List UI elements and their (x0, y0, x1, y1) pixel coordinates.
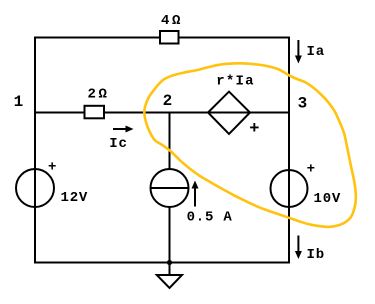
current arrow Ib (295, 236, 302, 260)
svg-text:Ib: Ib (307, 247, 325, 263)
resistor R2 2Ω box (85, 106, 105, 119)
ground (157, 263, 182, 289)
resistor R1 4Ω box (160, 31, 179, 44)
voltage source V2 10V circle (271, 170, 308, 207)
wire: outer loop (top, left, right, bottom) (35, 38, 289, 263)
svg-text:3: 3 (298, 95, 308, 113)
svg-text:0.5 A: 0.5 A (187, 210, 233, 226)
svg-text:Ia: Ia (307, 44, 325, 60)
svg-text:+: + (48, 160, 56, 176)
current arrow Ic (113, 126, 134, 133)
svg-text:2: 2 (163, 92, 173, 110)
current source I1 direction arrow (192, 181, 199, 207)
wire: middle branch vertical (169, 113, 171, 171)
svg-text:+: + (307, 162, 315, 178)
highlight loop (yellow hand-drawn oval) (144, 63, 356, 227)
svg-text:1: 1 (14, 93, 24, 111)
voltage source V1 12V circle (16, 169, 54, 207)
svg-text:+: + (249, 120, 259, 139)
svg-text:r*Ia: r*Ia (216, 74, 254, 90)
junction dot at bottom node (167, 260, 172, 265)
svg-text:2Ω: 2Ω (88, 87, 110, 103)
current arrow Ia (295, 40, 302, 64)
wire: middle horizontal node1-node2-node3 (35, 112, 289, 114)
svg-text:4Ω: 4Ω (161, 13, 183, 29)
svg-text:12V: 12V (61, 190, 89, 206)
svg-text:Ic: Ic (109, 136, 127, 152)
svg-text:10V: 10V (314, 191, 342, 207)
dependent source U1 diamond r*Ia (208, 92, 250, 134)
current source I1 circle with bar (151, 169, 189, 207)
